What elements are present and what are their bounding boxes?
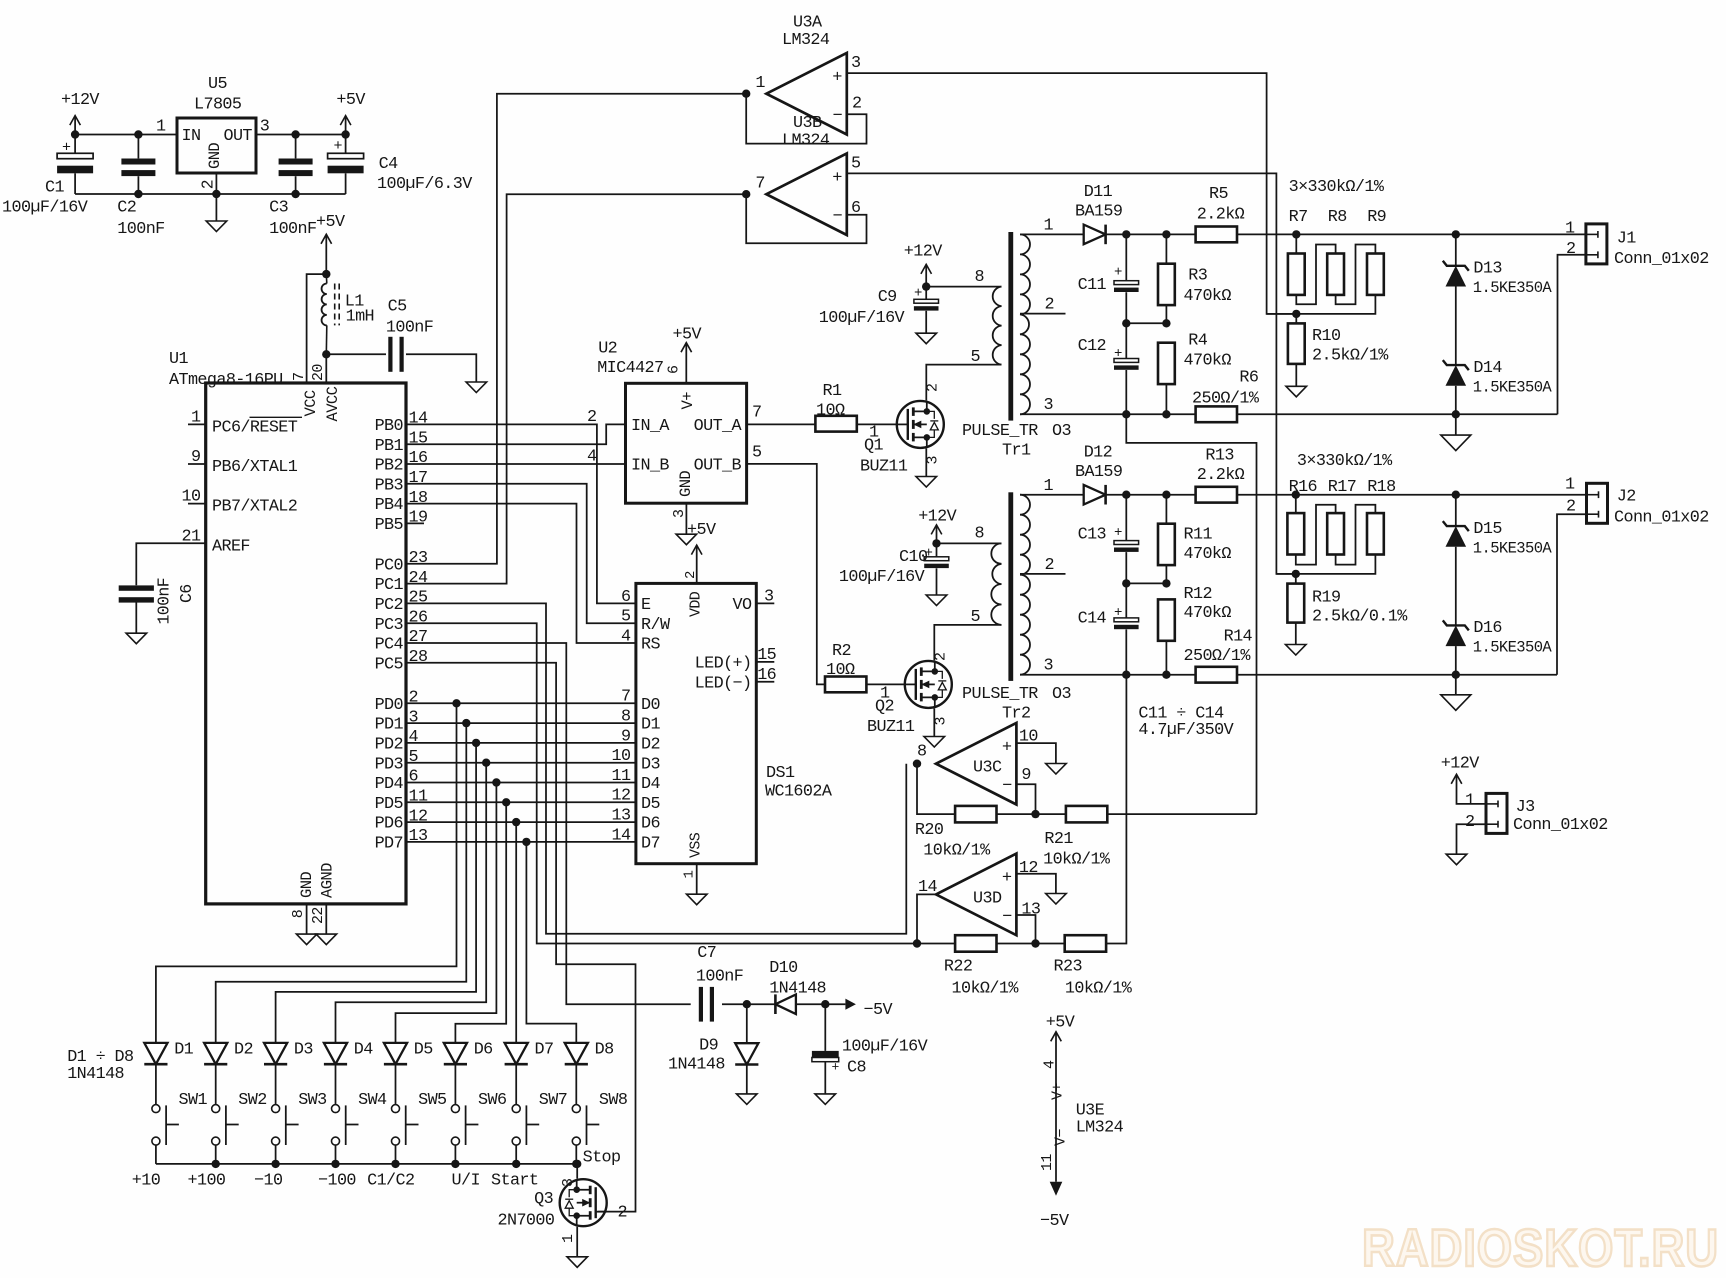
svg-text:D8: D8 [595, 1041, 614, 1060]
svg-text:2: 2 [587, 408, 596, 427]
svg-text:26: 26 [409, 608, 428, 627]
svg-text:R13: R13 [1205, 447, 1233, 466]
wire C12 node to R21 feedback [1126, 414, 1256, 814]
wire J2 pin2 [1557, 514, 1587, 675]
ground U2 [685, 503, 687, 534]
svg-text:2: 2 [1045, 556, 1054, 575]
diode D2 1N4148 [204, 1043, 227, 1064]
ground Q1 source [925, 448, 927, 476]
svg-text:100nF: 100nF [696, 968, 743, 987]
svg-text:+5V: +5V [1046, 1014, 1075, 1033]
svg-text:SW4: SW4 [358, 1091, 387, 1110]
svg-text:C12: C12 [1078, 337, 1106, 356]
wire C11-C12 mid [1126, 322, 1166, 324]
svg-text:C13: C13 [1078, 526, 1106, 545]
wire U3B output to J2 network [847, 173, 1296, 574]
svg-text:PC6/RESET: PC6/RESET [212, 419, 298, 438]
resistor R19 [1295, 574, 1297, 584]
junction [1292, 491, 1300, 499]
svg-text:−5V: −5V [864, 1001, 893, 1020]
wire +12V to Tr2 pin8 [937, 542, 1002, 544]
wire SW5 to rail [395, 1145, 397, 1164]
svg-text:J3: J3 [1516, 798, 1535, 817]
svg-text:D7: D7 [641, 835, 660, 854]
svg-text:9: 9 [191, 448, 200, 467]
wire U3A feedback [746, 94, 866, 144]
svg-text:1: 1 [1044, 217, 1054, 236]
op-amp U3D LM324 [936, 854, 1016, 936]
pin VO [756, 602, 774, 604]
svg-text:PB2: PB2 [375, 457, 403, 476]
ground right of C5 [466, 382, 487, 393]
svg-text:1mH: 1mH [346, 308, 374, 327]
wire PC3 to R22 [406, 623, 917, 943]
junction PD2 [472, 739, 480, 747]
diode D6 1N4148 [444, 1043, 467, 1064]
svg-text:D1: D1 [641, 716, 660, 735]
svg-text:2.5kΩ/0.1%: 2.5kΩ/0.1% [1312, 608, 1408, 627]
svg-text:D2: D2 [641, 736, 660, 755]
svg-text:SW6: SW6 [478, 1091, 506, 1110]
svg-text:10: 10 [182, 488, 201, 507]
pin AREF [136, 543, 205, 585]
junction [1452, 410, 1460, 418]
svg-text:BA159: BA159 [1075, 203, 1122, 222]
svg-text:PB6/XTAL1: PB6/XTAL1 [212, 458, 298, 477]
svg-text:−10: −10 [254, 1172, 283, 1191]
junction [1122, 410, 1130, 418]
wire +12V to Tr1 pin8 [926, 286, 1001, 288]
wire PD2 to D3 column [276, 743, 477, 1043]
svg-text:D3: D3 [294, 1041, 313, 1060]
transistor Q2 BUZ11 [905, 661, 952, 708]
connector J3 [1486, 793, 1507, 833]
junction [1162, 491, 1170, 499]
svg-text:11: 11 [612, 767, 631, 786]
svg-text:R21: R21 [1044, 830, 1073, 849]
svg-text:LM324: LM324 [782, 31, 830, 50]
switch SW5 [392, 1105, 400, 1113]
svg-text:8: 8 [290, 909, 307, 918]
wire bottom rail [75, 193, 346, 195]
junction PD0 [452, 699, 460, 707]
wire R13 to J2 pin1 [1237, 494, 1587, 496]
diode D1 1N4148 [144, 1043, 167, 1064]
ground DS1 VSS [696, 864, 698, 895]
svg-text:1: 1 [1465, 792, 1475, 811]
junction [391, 1160, 399, 1168]
svg-text:3: 3 [671, 509, 688, 518]
svg-text:R8: R8 [1328, 208, 1347, 227]
svg-text:DS1: DS1 [766, 764, 795, 783]
svg-text:O3: O3 [1052, 422, 1071, 441]
svg-text:LED(−): LED(−) [695, 674, 752, 693]
svg-text:10Ω: 10Ω [816, 401, 845, 420]
svg-text:C8: C8 [847, 1059, 866, 1078]
svg-text:14: 14 [612, 826, 631, 845]
svg-text:−5V: −5V [1040, 1212, 1069, 1231]
ground U3D [1046, 894, 1067, 905]
wire PD1 to DS1 D1 [406, 722, 636, 724]
svg-text:D10: D10 [769, 959, 798, 978]
diode D4 1N4148 [324, 1043, 347, 1064]
svg-text:13: 13 [1021, 901, 1040, 920]
svg-text:R7: R7 [1289, 208, 1308, 227]
wire PB0 to DS1 E [406, 424, 636, 603]
wire PD4 to DS1 D4 [406, 782, 636, 784]
pin PB7/XTAL2 [188, 503, 206, 505]
svg-text:D2: D2 [234, 1041, 253, 1060]
resistor R6 [1196, 406, 1237, 422]
diode D12 BA159 [1084, 485, 1106, 505]
svg-text:100µF/6.3V: 100µF/6.3V [377, 175, 472, 194]
svg-text:5: 5 [971, 608, 980, 627]
op-amp U3B LM324 [766, 153, 846, 235]
wire to VCC pin7 [307, 274, 327, 383]
svg-text:GND: GND [677, 471, 695, 497]
svg-text:C7: C7 [697, 944, 716, 963]
svg-text:1.5KE350A: 1.5KE350A [1473, 639, 1553, 657]
resistor R11 [1165, 495, 1167, 524]
svg-text:D11: D11 [1084, 183, 1113, 202]
svg-text:C3: C3 [269, 199, 288, 218]
junction [1292, 310, 1300, 318]
svg-text:1N4148: 1N4148 [67, 1065, 124, 1084]
svg-text:C1: C1 [45, 178, 64, 197]
junction [1122, 319, 1130, 327]
svg-text:+5V: +5V [336, 91, 365, 110]
wire D11 out [1106, 233, 1196, 235]
wire PB1 to U2 IN_A [406, 424, 626, 444]
svg-text:AVCC: AVCC [324, 386, 342, 421]
switch SW7 [512, 1105, 520, 1113]
wire C7 to D10 [722, 1003, 775, 1005]
svg-text:12: 12 [409, 807, 428, 826]
svg-text:12: 12 [612, 787, 631, 806]
svg-text:1N4148: 1N4148 [668, 1056, 725, 1075]
resistor R3 [1165, 234, 1167, 263]
svg-text:16: 16 [409, 449, 428, 468]
svg-text:Q1: Q1 [864, 437, 883, 456]
svg-text:11: 11 [1039, 1154, 1056, 1171]
junction [322, 350, 330, 358]
capacitor C6 [119, 585, 154, 590]
ground D14 [1455, 414, 1457, 435]
wire R2 to Q2 gate [866, 683, 904, 685]
wire PC2 to U3C input [406, 603, 906, 933]
wire J1 pin2 [1558, 255, 1586, 414]
svg-text:+: + [1002, 869, 1012, 888]
svg-text:LM324: LM324 [782, 132, 830, 151]
svg-text:BA159: BA159 [1075, 463, 1122, 482]
junction [1122, 671, 1130, 679]
svg-text:PD5: PD5 [375, 795, 403, 814]
ground J3 [1446, 854, 1467, 865]
svg-text:6: 6 [666, 365, 683, 374]
svg-text:U3D: U3D [973, 890, 1002, 909]
svg-text:−: − [1002, 777, 1012, 796]
svg-text:470kΩ: 470kΩ [1184, 604, 1232, 623]
svg-text:OUT: OUT [223, 127, 252, 146]
pin LED+ [756, 661, 774, 663]
svg-text:100µF/16V: 100µF/16V [842, 1038, 928, 1057]
svg-text:R16: R16 [1289, 478, 1317, 497]
svg-text:+12V: +12V [904, 243, 942, 262]
svg-text:100nF: 100nF [386, 318, 433, 337]
inductor L1 [322, 284, 327, 326]
ground Q2 source [933, 708, 935, 736]
wire Q1 drain to Tr1 pin5 [926, 365, 1001, 401]
svg-text:10: 10 [612, 747, 631, 766]
svg-text:+12V: +12V [1441, 754, 1479, 773]
svg-text:4.7µF/350V: 4.7µF/350V [1138, 721, 1233, 740]
switch SW8 [572, 1105, 580, 1113]
wire PD3 to D4 column [336, 763, 487, 1043]
svg-text:13: 13 [612, 807, 631, 826]
wire SW3 to rail [275, 1145, 277, 1164]
junction [1292, 570, 1300, 578]
wire PD3 to DS1 D3 [406, 762, 636, 764]
wire Tr2 pin1 to D12 [1020, 494, 1084, 496]
wire U3C -in to R20/R21 node [1016, 784, 1035, 814]
svg-text:R11: R11 [1184, 526, 1213, 545]
wire PD7 to DS1 D7 [406, 841, 636, 843]
svg-text:18: 18 [409, 489, 428, 508]
wire PD2 to DS1 D2 [406, 742, 636, 744]
svg-text:C4: C4 [379, 155, 398, 174]
svg-text:25: 25 [409, 589, 428, 608]
svg-text:SW3: SW3 [298, 1091, 326, 1110]
svg-text:100µF/16V: 100µF/16V [819, 309, 905, 328]
wire U3D -in to R22/R23 node [1016, 915, 1035, 944]
svg-text:2.5kΩ/1%: 2.5kΩ/1% [1312, 347, 1389, 366]
switch SW1 [152, 1105, 160, 1113]
svg-text:PC4: PC4 [375, 636, 404, 655]
junction [1162, 230, 1170, 238]
resistor R12 [1158, 599, 1175, 640]
svg-text:PULSE_TR: PULSE_TR [962, 422, 1038, 441]
svg-text:−: − [833, 208, 843, 227]
U2 MIC4427 [626, 383, 747, 503]
svg-text:3×330kΩ/1%: 3×330kΩ/1% [1289, 178, 1385, 197]
power net -5V [845, 999, 856, 1010]
svg-text:10kΩ/1%: 10kΩ/1% [1043, 851, 1111, 870]
svg-text:21: 21 [182, 527, 201, 546]
DS1 WC1602A [636, 583, 756, 863]
junction [1122, 230, 1130, 238]
svg-text:470kΩ: 470kΩ [1184, 545, 1232, 564]
capacitor C3 [279, 159, 313, 165]
wire U5 out [256, 134, 346, 136]
resistor R13 [1196, 487, 1237, 503]
svg-text:11: 11 [409, 788, 428, 807]
wire PC0 to U3A input [406, 94, 746, 564]
junction [743, 1000, 751, 1008]
svg-text:5: 5 [409, 748, 418, 767]
transformer Tr1 [1008, 232, 1013, 421]
wire AVCC pin20 [325, 354, 327, 383]
svg-text:+: + [1114, 265, 1122, 281]
svg-text:PB7/XTAL2: PB7/XTAL2 [212, 498, 297, 517]
svg-text:C2: C2 [117, 199, 136, 218]
svg-text:VSS: VSS [688, 832, 705, 858]
resistor R2 [825, 677, 866, 693]
svg-text:D6: D6 [641, 815, 660, 834]
svg-text:BUZ11: BUZ11 [867, 718, 915, 737]
resistor R4 [1158, 343, 1175, 384]
svg-text:15: 15 [757, 646, 776, 665]
svg-text:2: 2 [1045, 296, 1054, 315]
svg-text:4: 4 [409, 728, 419, 747]
wire Tr2 pin3 line [1020, 674, 1196, 676]
svg-text:100nF: 100nF [269, 220, 316, 239]
switch SW4 [332, 1105, 340, 1113]
svg-text:Conn_01x02: Conn_01x02 [1614, 508, 1709, 527]
wire R23 right to C13/C14 node [1106, 675, 1127, 944]
junction Stop node [573, 1160, 581, 1168]
ground C8 [815, 1094, 836, 1105]
svg-text:D5: D5 [641, 795, 660, 814]
svg-text:2.2kΩ: 2.2kΩ [1197, 466, 1245, 485]
svg-text:D13: D13 [1473, 260, 1501, 279]
svg-text:D9: D9 [699, 1037, 718, 1056]
svg-text:J2: J2 [1617, 488, 1636, 507]
resistor R22 [917, 943, 955, 945]
wire U3A output to J1 network [847, 73, 1297, 314]
svg-text:SW5: SW5 [418, 1091, 446, 1110]
svg-text:15: 15 [409, 429, 428, 448]
wire Tr1 pin3 line [1020, 413, 1196, 415]
svg-text:C1/C2: C1/C2 [367, 1172, 414, 1191]
diode D7 1N4148 [505, 1043, 528, 1064]
svg-text:+12V: +12V [61, 91, 99, 110]
junction U3C input [913, 760, 921, 768]
svg-text:+100: +100 [188, 1172, 226, 1191]
svg-text:+: + [832, 68, 842, 87]
svg-text:100nF: 100nF [117, 220, 164, 239]
svg-text:7: 7 [291, 373, 308, 381]
junction [1292, 230, 1300, 238]
wire R6 to D14 bottom [1237, 413, 1558, 415]
capacitor C7 [699, 987, 703, 1022]
svg-text:1.5KE350A: 1.5KE350A [1473, 379, 1553, 397]
svg-text:3: 3 [764, 588, 773, 607]
svg-text:10kΩ/1%: 10kΩ/1% [1065, 979, 1133, 998]
wire PB4 to DS1 RS [406, 504, 636, 643]
svg-text:D4: D4 [641, 775, 660, 794]
ground R19 [1295, 623, 1297, 645]
svg-text:R14: R14 [1224, 628, 1253, 647]
svg-text:VCC: VCC [302, 390, 320, 416]
wire SW7 to rail [515, 1145, 517, 1164]
diode D8 1N4148 [565, 1043, 588, 1064]
svg-text:8: 8 [975, 525, 984, 544]
svg-text:R23: R23 [1054, 958, 1082, 977]
svg-text:SW1: SW1 [179, 1091, 208, 1110]
capacitor C8 [824, 1004, 826, 1051]
ground C6 [135, 600, 137, 633]
wire D12 out [1106, 494, 1196, 496]
op-amp U3C LM324 [936, 723, 1016, 805]
svg-text:1.5KE350A: 1.5KE350A [1473, 279, 1553, 297]
svg-text:R12: R12 [1184, 585, 1212, 604]
svg-text:+5V: +5V [687, 521, 716, 540]
svg-text:100µF/16V: 100µF/16V [839, 568, 925, 587]
ground U3C [1046, 764, 1067, 775]
svg-text:D6: D6 [474, 1041, 493, 1060]
svg-text:Conn_01x02: Conn_01x02 [1513, 816, 1608, 835]
svg-text:2: 2 [1566, 240, 1575, 259]
svg-text:−: − [833, 107, 843, 126]
svg-text:OUT_B: OUT_B [694, 457, 742, 476]
svg-text:+: + [1002, 738, 1012, 757]
svg-text:7: 7 [752, 404, 761, 423]
power net -5V U3E [1050, 1182, 1063, 1196]
svg-text:SW7: SW7 [539, 1091, 567, 1110]
svg-text:+5V: +5V [316, 213, 345, 232]
svg-text:2: 2 [618, 1204, 627, 1223]
svg-text:PD0: PD0 [375, 696, 404, 715]
junction [1162, 410, 1170, 418]
junction [212, 1160, 220, 1168]
junction [922, 282, 930, 290]
junction [1452, 671, 1460, 679]
svg-text:AGND: AGND [319, 863, 337, 898]
svg-text:20: 20 [310, 364, 327, 381]
svg-text:PD6: PD6 [375, 815, 403, 834]
wire R22-R23 [996, 943, 1065, 945]
svg-text:PC5: PC5 [375, 655, 403, 674]
svg-text:Q3: Q3 [534, 1190, 553, 1209]
junction PD4 [492, 778, 500, 786]
junction PD6 [512, 818, 520, 826]
junction [512, 1160, 520, 1168]
wire D10 out [796, 1003, 846, 1005]
svg-text:PD1: PD1 [375, 716, 404, 735]
svg-text:R5: R5 [1209, 185, 1228, 204]
svg-text:PB5: PB5 [375, 516, 403, 535]
wire SW6 to rail [454, 1145, 456, 1164]
svg-text:R6: R6 [1239, 369, 1258, 388]
svg-text:GND: GND [298, 872, 316, 898]
resistor R5 [1196, 227, 1237, 243]
svg-text:+12V: +12V [918, 507, 956, 526]
junction [1031, 810, 1039, 818]
svg-text:5: 5 [752, 444, 761, 463]
svg-text:R20: R20 [915, 821, 944, 840]
ground D9 [737, 1094, 758, 1105]
svg-text:19: 19 [409, 509, 428, 528]
pin PB6/XTAL1 [188, 463, 206, 465]
svg-text:4: 4 [587, 448, 597, 467]
svg-text:100nF: 100nF [154, 578, 173, 625]
svg-text:R/W: R/W [641, 616, 671, 635]
junction [1031, 939, 1039, 947]
svg-text:D1: D1 [174, 1041, 193, 1060]
svg-text:8: 8 [917, 743, 926, 762]
svg-text:LM324: LM324 [1076, 1119, 1124, 1138]
svg-text:R2: R2 [832, 642, 851, 661]
junction [1162, 579, 1170, 587]
svg-text:OUT_A: OUT_A [694, 417, 743, 436]
svg-text:PD4: PD4 [375, 775, 404, 794]
svg-text:2: 2 [409, 689, 418, 708]
wire C13-C14 mid [1126, 582, 1166, 584]
svg-text:1: 1 [682, 871, 698, 879]
svg-text:PC0: PC0 [375, 556, 404, 575]
regulator U5 [177, 118, 256, 173]
svg-text:28: 28 [409, 648, 428, 667]
